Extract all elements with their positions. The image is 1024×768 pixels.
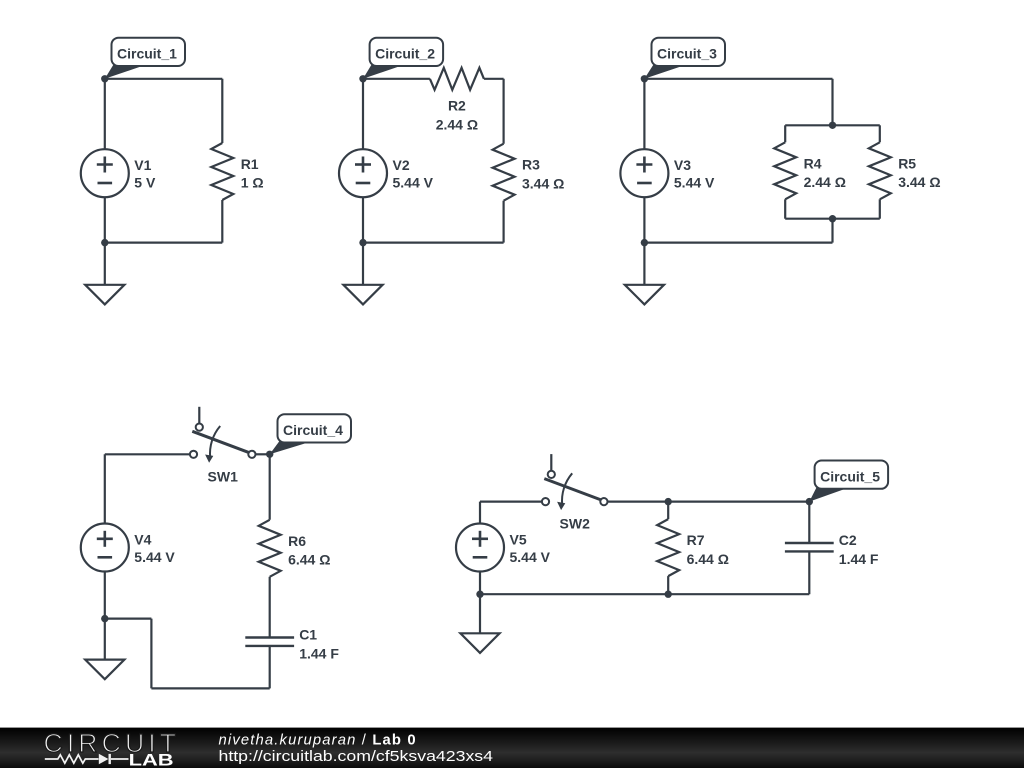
- ground (Circuit_4): [85, 660, 124, 680]
- svg-text:R1: R1: [241, 156, 259, 172]
- wire bottom (Circuit_2): [363, 242, 504, 244]
- node flag Circuit_1: [105, 65, 145, 79]
- wire bottom horizontal (Circuit_4): [151, 687, 269, 689]
- resistor R2: [430, 68, 484, 90]
- wire left lower (Circuit_1): [104, 197, 106, 242]
- node A5 (Circuit_5 top right): [806, 498, 813, 505]
- voltage source V4: [81, 524, 129, 572]
- svg-text:1.44 F: 1.44 F: [299, 645, 339, 661]
- wire down from parallel pair: [831, 219, 833, 243]
- wire top: node to R1 (Circuit_1): [105, 78, 223, 80]
- wire bottom (Circuit_5): [480, 593, 809, 595]
- capacitor C2: [785, 542, 834, 544]
- svg-text:Circuit_1: Circuit_1: [117, 46, 177, 62]
- wire top (Circuit_3): [644, 78, 832, 80]
- svg-text:LAB: LAB: [129, 751, 174, 768]
- node flag Circuit_5: [809, 487, 847, 501]
- wire C2 bottom lead: [808, 551, 810, 594]
- node B3 (Circuit_3 bottom): [641, 239, 648, 246]
- svg-text:V4: V4: [134, 531, 151, 547]
- svg-text:Circuit_5: Circuit_5: [820, 468, 880, 484]
- node B4 (Circuit_4 bottom): [101, 615, 108, 622]
- svg-text:6.44 Ω: 6.44 Ω: [288, 552, 330, 568]
- svg-text:Circuit_2: Circuit_2: [375, 46, 435, 62]
- svg-text:http://circuitlab.com/cf5ksva4: http://circuitlab.com/cf5ksva423xs4: [219, 749, 494, 765]
- node A3 (Circuit_3 top): [641, 75, 648, 82]
- resistor R1: [211, 143, 233, 200]
- node A4 (Circuit_4 top): [266, 451, 273, 458]
- wire left upper (Circuit_2): [362, 79, 364, 149]
- wire right upper (Circuit_2): [503, 79, 505, 144]
- wire to ground (Circuit_5): [479, 594, 481, 633]
- wire to ground (Circuit_4): [104, 619, 106, 660]
- wire V4 to SW1 (Circuit_4): [105, 453, 190, 455]
- wire SW1 to node (Circuit_4): [255, 453, 269, 455]
- wire right lower (Circuit_1): [221, 200, 223, 243]
- node junction bottom of parallel pair: [829, 215, 836, 222]
- wire left upper (Circuit_4): [104, 454, 106, 523]
- wire R7 top lead: [667, 502, 669, 519]
- wire left lower (Circuit_4): [104, 572, 106, 619]
- resistor R3: [493, 144, 515, 201]
- svg-text:5.44 V: 5.44 V: [393, 175, 434, 191]
- svg-text:C2: C2: [839, 532, 857, 548]
- resistor R5: [869, 142, 891, 199]
- wire right lower (Circuit_2): [503, 201, 505, 243]
- capacitor C1: [245, 636, 294, 638]
- svg-text:Circuit_4: Circuit_4: [283, 422, 343, 438]
- resistor R4: [774, 142, 796, 199]
- node R7 bottom junction: [665, 591, 672, 598]
- wire parallel bottom rail (Circuit_3): [785, 218, 880, 220]
- ground (Circuit_3): [625, 285, 664, 305]
- wire R5 bottom lead: [879, 199, 881, 218]
- wire left upper (Circuit_1): [104, 79, 106, 149]
- node flag Circuit_2: [363, 65, 403, 79]
- ground (Circuit_1): [85, 285, 124, 305]
- wire top right segment (Circuit_2): [484, 78, 504, 80]
- ground (Circuit_5): [460, 633, 499, 653]
- voltage source V5: [456, 524, 504, 572]
- svg-text:V5: V5: [510, 531, 527, 547]
- svg-text:R7: R7: [687, 532, 705, 548]
- node R7 top junction: [665, 498, 672, 505]
- CircuitLab logo: resistor squiggle: [45, 755, 99, 763]
- svg-text:6.44 Ω: 6.44 Ω: [687, 551, 729, 567]
- svg-text:SW2: SW2: [560, 516, 591, 532]
- wire R7 bottom lead: [667, 576, 669, 594]
- node flag Circuit_3: [644, 65, 684, 79]
- wire bottom (Circuit_3): [644, 242, 832, 244]
- wire left upper (Circuit_5): [479, 502, 481, 524]
- svg-text:5.44 V: 5.44 V: [510, 549, 551, 565]
- svg-text:C1: C1: [299, 627, 317, 643]
- svg-text:Circuit_3: Circuit_3: [657, 46, 717, 62]
- svg-text:R4: R4: [804, 155, 822, 171]
- svg-text:2.44 Ω: 2.44 Ω: [804, 174, 846, 190]
- svg-text:V2: V2: [393, 157, 410, 173]
- wire to ground (Circuit_1): [104, 243, 106, 285]
- wire R5 top lead: [879, 125, 881, 142]
- footer bar: [0, 728, 1024, 768]
- svg-text:R3: R3: [522, 157, 540, 173]
- svg-text:nivetha.kuruparan / Lab 0: nivetha.kuruparan / Lab 0: [219, 732, 417, 748]
- voltage source V1: [81, 149, 129, 197]
- svg-text:R2: R2: [448, 98, 466, 114]
- wire to V4 bottom node: [105, 617, 152, 619]
- wire bottom (Circuit_1): [105, 242, 223, 244]
- wire left lower (Circuit_5): [479, 572, 481, 595]
- voltage source V2: [339, 149, 387, 197]
- CircuitLab logo: diode symbol: [99, 754, 109, 765]
- node A1 (Circuit_1 top): [101, 75, 108, 82]
- svg-text:2.44 Ω: 2.44 Ω: [436, 116, 478, 132]
- node B5 (Circuit_5 bottom): [476, 591, 483, 598]
- svg-text:SW1: SW1: [208, 468, 239, 484]
- wire R4 top lead: [784, 125, 786, 142]
- svg-text:V1: V1: [134, 157, 151, 173]
- wire SW2 to C2 node (Circuit_5): [608, 501, 810, 503]
- node B2 (Circuit_2 bottom): [359, 239, 366, 246]
- svg-text:5.44 V: 5.44 V: [134, 549, 175, 565]
- switch SW2: [542, 454, 608, 505]
- node A2 (Circuit_2 top): [359, 75, 366, 82]
- wire parallel top rail (Circuit_3): [785, 124, 880, 126]
- svg-text:1.44 F: 1.44 F: [839, 551, 879, 567]
- svg-text:3.44 Ω: 3.44 Ω: [522, 175, 564, 191]
- wire C2 top lead: [808, 502, 810, 543]
- ground (Circuit_2): [343, 285, 382, 305]
- wire right upper (Circuit_1): [221, 79, 223, 143]
- wire to ground (Circuit_3): [643, 243, 645, 285]
- svg-text:R5: R5: [898, 155, 916, 171]
- voltage source V3: [620, 149, 668, 197]
- svg-text:3.44 Ω: 3.44 Ω: [898, 174, 940, 190]
- wire down to R6: [269, 454, 271, 520]
- wire down to parallel pair (Circuit_3): [831, 79, 833, 126]
- wire left lower (Circuit_2): [362, 197, 364, 242]
- wire V5 to SW2 (Circuit_5): [480, 501, 542, 503]
- wire C1 bottom lead: [269, 646, 271, 689]
- wire left lower (Circuit_3): [643, 197, 645, 242]
- wire top left segment (Circuit_2): [363, 78, 430, 80]
- wire bottom vertical (Circuit_4): [150, 619, 152, 689]
- svg-text:1 Ω: 1 Ω: [241, 175, 264, 191]
- node junction top of parallel pair: [829, 122, 836, 129]
- wire to ground (Circuit_2): [362, 243, 364, 285]
- svg-text:5.44 V: 5.44 V: [674, 175, 715, 191]
- wire left upper (Circuit_3): [643, 79, 645, 149]
- wire R4 bottom lead: [784, 199, 786, 218]
- resistor R7: [657, 519, 679, 576]
- node B1 (Circuit_1 bottom): [101, 239, 108, 246]
- wire R6 to C1: [269, 577, 271, 638]
- svg-text:R6: R6: [288, 533, 306, 549]
- svg-text:V3: V3: [674, 157, 691, 173]
- svg-text:5 V: 5 V: [134, 175, 156, 191]
- node flag Circuit_4: [270, 441, 311, 454]
- resistor R6: [259, 520, 281, 577]
- switch SW1: [190, 407, 256, 458]
